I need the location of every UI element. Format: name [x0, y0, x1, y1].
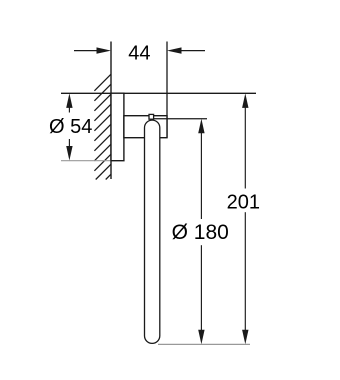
dimension Ø180: vertical line with arrows: [200, 131, 202, 219]
wall surface line: [110, 42, 112, 180]
svg-text:Ø 180: Ø 180: [172, 221, 229, 244]
extension line: 44 right / holder right edge: [166, 42, 168, 138]
svg-text:201: 201: [227, 191, 260, 213]
extension line: Ø180 top: [154, 118, 207, 120]
dimension Ø54: vertical line with arrows: [68, 104, 70, 113]
flange plate (wall escutcheon, side view): [111, 93, 124, 161]
ring hook pin: [149, 114, 154, 119]
svg-text:44: 44: [128, 42, 150, 64]
holder arm body: [124, 116, 167, 138]
extension line: flange bottom (gray, Ø54 bottom): [61, 160, 111, 162]
svg-text:Ø 54: Ø 54: [49, 116, 92, 138]
wall hatching: [94, 74, 111, 179]
dimension 44: left line + arrow: [74, 50, 97, 52]
towel ring (side view, stadium): [145, 120, 160, 343]
dimension 201: vertical line with arrows: [244, 104, 246, 189]
extension line: top (Ø54 top / 201 top / flange top): [61, 92, 256, 94]
extension line: ring bottom (gray, Ø180/201 bottom): [158, 343, 250, 345]
dimension 44: right line + arrow: [180, 50, 205, 52]
